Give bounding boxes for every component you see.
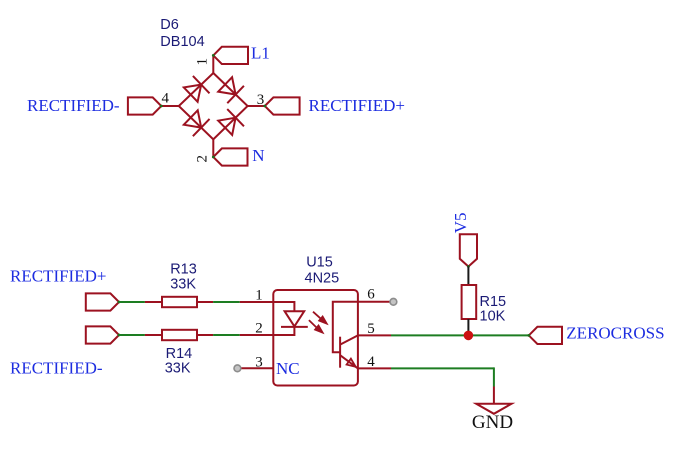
- ground symbol: [476, 404, 511, 414]
- svg-text:5: 5: [367, 321, 375, 337]
- svg-text:10K: 10K: [480, 309, 506, 325]
- pin 4 of D6 (left): [161, 105, 179, 107]
- svg-text:NC: NC: [276, 359, 300, 378]
- svg-text:RECTIFIED-: RECTIFIED-: [10, 359, 103, 378]
- svg-text:RECTIFIED-: RECTIFIED-: [27, 96, 120, 115]
- U15 internal LED anode path: [273, 302, 294, 311]
- resistor R14: [145, 330, 213, 340]
- svg-text:GND: GND: [472, 412, 513, 433]
- svg-text:R15: R15: [480, 294, 507, 310]
- diode D6 bottom-right (2 to 3): [217, 109, 244, 136]
- node N pin-end dot: [212, 156, 215, 159]
- svg-text:RECTIFIED+: RECTIFIED+: [10, 267, 106, 286]
- node L1 pin-end dot: [212, 54, 215, 57]
- junction dot (R15 / pin5 / ZEROCROSS): [464, 331, 474, 341]
- node ZEROCROSS pin-end dot: [527, 334, 530, 337]
- U15 phototransistor: [340, 335, 358, 368]
- power port V5: [460, 234, 477, 266]
- resistor R13: [145, 297, 213, 307]
- svg-text:3: 3: [257, 92, 265, 108]
- wire port to R14: [119, 334, 145, 336]
- port L1: [213, 47, 248, 64]
- wire R13 to U15 pin1: [213, 301, 240, 303]
- wire U15 pin4 to ground (horizontal): [391, 367, 494, 369]
- wire port to R13: [119, 301, 145, 303]
- node dot row2: [118, 334, 121, 337]
- wire V5 to R15 (power wire): [467, 267, 469, 286]
- svg-text:D6: D6: [160, 17, 179, 33]
- svg-text:3: 3: [255, 354, 263, 370]
- U15 light arrow 2: [309, 320, 323, 332]
- svg-text:6: 6: [367, 286, 375, 302]
- resistor R15: [462, 285, 477, 319]
- svg-text:N: N: [252, 146, 264, 165]
- svg-text:RECTIFIED+: RECTIFIED+: [309, 96, 405, 115]
- pin 6 unconnected gray dot: [390, 298, 397, 305]
- svg-text:DB104: DB104: [160, 34, 204, 50]
- pin 3 of U15 (NC): [238, 367, 273, 369]
- svg-text:2: 2: [195, 155, 211, 163]
- port N: [213, 148, 247, 165]
- node RECTIFIED- pin-end dot: [160, 105, 163, 108]
- pin 5 of U15: [358, 334, 391, 336]
- svg-text:U15: U15: [306, 255, 333, 271]
- diode D6 top-left (4 to 1): [182, 76, 209, 103]
- U15 light arrow 1: [313, 312, 327, 324]
- pin 3 unconnected gray dot: [234, 365, 241, 372]
- pin 3 of D6 (right): [248, 105, 265, 107]
- svg-text:L1: L1: [251, 44, 270, 63]
- svg-text:1: 1: [255, 288, 263, 304]
- bridge rectifier D6 body (diamond): [179, 73, 248, 139]
- port ZEROCROSS: [529, 327, 562, 344]
- svg-text:4: 4: [162, 90, 170, 106]
- node V5 pin-end dot: [467, 265, 470, 268]
- wire R15 to junction: [467, 319, 469, 335]
- ground stub (red): [493, 387, 495, 404]
- svg-text:2: 2: [255, 321, 263, 337]
- pin 6 of U15: [358, 301, 393, 303]
- svg-text:V5: V5: [451, 213, 470, 234]
- svg-text:33K: 33K: [170, 276, 196, 292]
- node RECTIFIED+ pin-end dot: [263, 105, 266, 108]
- port RECTIFIED- (top): [128, 97, 161, 114]
- pin 2 of U15: [240, 334, 273, 336]
- wire U15 pin5 to ZEROCROSS port: [391, 334, 529, 336]
- wire R14 to U15 pin2: [213, 334, 240, 336]
- pin 4 of U15: [358, 367, 391, 369]
- wire to ground (vertical green): [493, 367, 495, 386]
- svg-text:4: 4: [367, 354, 375, 370]
- svg-text:4N25: 4N25: [305, 271, 340, 287]
- optocoupler U15 body: [273, 290, 358, 386]
- svg-text:R13: R13: [170, 262, 197, 278]
- svg-text:1: 1: [195, 58, 211, 66]
- svg-text:ZEROCROSS: ZEROCROSS: [566, 324, 664, 343]
- pin 1 of U15: [240, 301, 273, 303]
- U15 phototransistor base path from pin 6: [333, 302, 358, 352]
- diode D6 top-right (1 to 3): [217, 76, 244, 103]
- diode D6 bottom-left (4 to 2): [182, 109, 209, 136]
- port RECTIFIED+ (top): [265, 97, 300, 114]
- pin 2 of D6 (bottom): [212, 139, 214, 157]
- port RECTIFIED+ (bottom row 1): [86, 293, 119, 310]
- node dot row1: [118, 301, 121, 304]
- port RECTIFIED- (bottom row 2): [86, 326, 119, 343]
- U15 internal LED (triangle + bar): [273, 311, 308, 335]
- U15 emitter arrowhead: [347, 359, 356, 367]
- pin 1 of D6 (top): [212, 56, 214, 73]
- svg-text:33K: 33K: [165, 360, 191, 376]
